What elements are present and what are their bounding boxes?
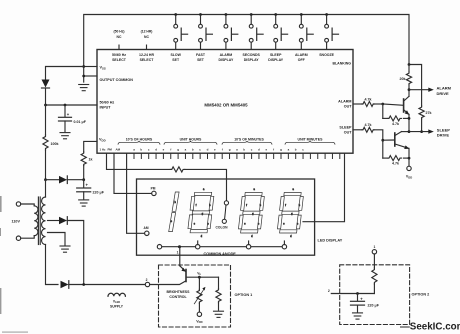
svg-text:AM: AM	[116, 148, 121, 152]
PINSTUBS	[134, 153, 340, 159]
wire 50/60Hz input	[46, 104, 98, 106]
option 2 dashed box	[340, 265, 410, 325]
svg-text:d: d	[155, 148, 157, 152]
svg-text:12-24 HR: 12-24 HR	[139, 53, 154, 57]
wire top supply rail	[84, 15, 409, 83]
resistor R11 4.7k sleep	[353, 127, 383, 140]
svg-text:INPUT: INPUT	[100, 106, 112, 110]
svg-text:f: f	[170, 148, 171, 152]
ground C1	[60, 133, 70, 139]
capacitor C1 0.01uF	[59, 105, 72, 132]
node AM terminal	[145, 231, 149, 235]
resistor R10 4.7k shunt	[383, 104, 409, 121]
svg-text:50/60 Hz: 50/60 Hz	[112, 53, 126, 57]
resistor R6	[372, 254, 377, 294]
svg-text:DISPLAY: DISPLAY	[268, 58, 284, 62]
svg-text:DRIVE: DRIVE	[437, 91, 450, 96]
svg-text:d: d	[207, 148, 209, 152]
node Vb	[198, 276, 201, 279]
option 1 dashed box	[159, 265, 231, 327]
brace 10s hours	[118, 141, 160, 145]
wire center tap to ground	[48, 233, 66, 246]
svg-text:UNIT MINUTES: UNIT MINUTES	[298, 137, 324, 141]
svg-text:PM: PM	[108, 148, 113, 152]
svg-text:VLED: VLED	[113, 300, 120, 305]
svg-text:OPTION 1: OPTION 1	[235, 293, 253, 297]
ground (VSS rail)	[79, 85, 89, 91]
wire Q2 base	[383, 139, 395, 141]
svg-text:1 Hz: 1 Hz	[100, 148, 106, 152]
wire 1Hz to colon with resistor R3	[107, 153, 227, 201]
node Q2 base	[381, 139, 384, 142]
svg-text:OUT: OUT	[344, 105, 353, 109]
svg-text:DRIVE: DRIVE	[437, 133, 450, 138]
svg-text:OUT: OUT	[344, 130, 353, 134]
capacitor C2 220uF	[77, 180, 91, 199]
svg-text:220 μF: 220 μF	[368, 304, 380, 308]
wire alarm drive arrow	[409, 88, 434, 92]
svg-text:OPTION 2: OPTION 2	[412, 292, 430, 296]
svg-text:4.7k: 4.7k	[392, 122, 399, 126]
wire 20k branch	[409, 65, 422, 107]
wire Q3 collector node	[186, 276, 218, 278]
node cap tap	[64, 104, 67, 107]
svg-text:NC: NC	[144, 35, 149, 39]
svg-text:SLEEP: SLEEP	[339, 125, 352, 129]
wire PM pin	[114, 153, 152, 193]
pin letters segments	[133, 148, 304, 152]
resistor R8 27k	[419, 106, 424, 132]
svg-text:2: 2	[146, 278, 148, 282]
scan smudge left edge	[0, 196, 2, 314]
svg-text:UNIT HOURS: UNIT HOURS	[180, 137, 202, 141]
display digit 10s-hours (1)	[169, 192, 179, 232]
svg-text:b: b	[192, 148, 194, 152]
svg-text:(50 Hz): (50 Hz)	[113, 30, 124, 34]
brace unit hours	[164, 141, 217, 145]
wire VSS to diode D1	[46, 67, 84, 80]
node PM terminal	[152, 191, 156, 195]
svg-text:COLON: COLON	[216, 226, 229, 230]
inductor VLED supply symbol	[108, 293, 125, 296]
svg-text:g: g	[229, 148, 231, 152]
svg-text:1: 1	[373, 245, 375, 249]
node Q1 base	[381, 103, 384, 106]
ground C3	[353, 313, 363, 319]
transformer T1 primary	[16, 202, 38, 241]
pins segment outputs bottom	[134, 153, 340, 159]
ground center tap	[60, 246, 70, 252]
svg-text:f: f	[273, 148, 274, 152]
wire Q1 base	[383, 104, 404, 105]
svg-text:PM: PM	[151, 187, 156, 191]
svg-text:b: b	[243, 148, 245, 152]
diode D3	[48, 217, 84, 285]
switch FAST SET	[199, 13, 213, 49]
node 1 junction	[178, 245, 181, 248]
svg-text:4.7k: 4.7k	[365, 123, 372, 127]
svg-text:FAST: FAST	[196, 53, 206, 57]
switch SLOW SET	[174, 13, 188, 49]
colon	[222, 201, 228, 224]
svg-text:SNOOZE: SNOOZE	[319, 53, 334, 57]
display segment letters	[171, 189, 301, 238]
svg-text:0.01 μF: 0.01 μF	[74, 120, 87, 124]
svg-text:—SeekIC.com: —SeekIC.com	[400, 321, 460, 332]
svg-text:ALARM: ALARM	[295, 53, 308, 57]
switch ALARM DISPLAY	[224, 13, 238, 49]
wire secondary bottom	[46, 245, 59, 285]
svg-text:b: b	[295, 148, 297, 152]
svg-text:100k: 100k	[51, 142, 59, 146]
node sleep drive	[408, 130, 411, 133]
svg-text:OUTPUT COMMON: OUTPUT COMMON	[100, 78, 134, 82]
node option2 junction	[356, 292, 359, 295]
resistor R1 100k	[43, 105, 48, 180]
svg-text:110V: 110V	[12, 219, 21, 223]
node VDD terminal option1	[197, 312, 201, 316]
svg-text:SET: SET	[172, 58, 180, 62]
wire secondary top	[45, 180, 47, 197]
transistor Q3 brightness	[180, 247, 186, 282]
switch SECONDS DISPLAY	[249, 13, 263, 49]
switch SLEEP DISPLAY	[274, 13, 288, 49]
transformer T1 secondary	[42, 197, 46, 245]
node common anode terminals	[157, 245, 286, 249]
svg-text:b: b	[140, 148, 142, 152]
brace unit minutes	[285, 141, 335, 145]
wire OUTPUT COMMON pin stub	[84, 75, 97, 77]
transformer T1 core	[38, 197, 40, 245]
svg-text:COMMON ANODE: COMMON ANODE	[204, 252, 237, 256]
SWITCHES	[119, 13, 339, 49]
node LED supply junction	[82, 283, 85, 286]
svg-text:1k: 1k	[89, 158, 93, 162]
switch SNOOZE	[325, 13, 339, 49]
svg-text:2: 2	[328, 289, 330, 293]
resistor R9 4.7k alarm	[353, 102, 383, 107]
svg-text:g: g	[280, 148, 282, 152]
wire common anode line	[160, 246, 285, 248]
potentiometer R4 brightness	[194, 277, 205, 312]
diode D4	[61, 281, 146, 289]
node VSS junction	[82, 65, 85, 68]
ground R5	[214, 311, 224, 317]
DIGITS	[169, 189, 304, 238]
svg-text:SLOW: SLOW	[170, 53, 181, 57]
svg-text:ALARM: ALARM	[338, 100, 351, 104]
capacitor C3 220uF	[351, 294, 365, 312]
node OUTPUT COMMON junction	[82, 75, 85, 78]
brace 10s minutes	[222, 141, 272, 145]
svg-text:SLEEP: SLEEP	[270, 53, 282, 57]
svg-text:NC: NC	[117, 35, 122, 39]
svg-text:AM: AM	[144, 226, 149, 230]
switch ALARM OFF	[299, 13, 313, 49]
resistor R5	[216, 277, 221, 310]
resistor R7 20k	[406, 65, 411, 90]
node alarm drive	[408, 88, 411, 91]
svg-text:SECONDS: SECONDS	[243, 53, 261, 57]
wire to VDD terminal	[408, 148, 410, 166]
svg-text:BRIGHTNESS: BRIGHTNESS	[167, 290, 191, 294]
wire option2 node 2	[331, 293, 374, 295]
wire terminal 2 to Q3 base	[150, 281, 186, 285]
svg-text:OFF: OFF	[298, 58, 306, 62]
node rail corner	[408, 63, 411, 66]
node rectifier output	[44, 178, 47, 181]
svg-text:BLANKING: BLANKING	[333, 62, 352, 66]
resistor R2 1k	[81, 152, 86, 180]
diode D1	[42, 80, 50, 106]
svg-text:DISPLAY: DISPLAY	[218, 58, 234, 62]
transistor Q2	[395, 132, 410, 149]
resistor R12 4.7k shunt2	[383, 140, 409, 160]
svg-text:50/60 Hz: 50/60 Hz	[100, 101, 115, 105]
display digit unit-minutes (8)	[277, 193, 304, 234]
svg-text:4.7k: 4.7k	[365, 97, 372, 101]
pin 12-24HR select NC stub	[146, 45, 148, 50]
node VDD terminal	[407, 166, 411, 170]
svg-text:27k: 27k	[426, 111, 432, 115]
svg-text:g: g	[177, 148, 179, 152]
svg-text:DISPLAY: DISPLAY	[244, 58, 260, 62]
wire AM pin	[127, 153, 145, 233]
display digit unit-hours (8)	[187, 192, 214, 233]
svg-text:MM5402 OR MM5405: MM5402 OR MM5405	[204, 103, 248, 108]
pin 50/60Hz select NC stub	[118, 45, 120, 50]
svg-text:10'S OF MINUTES: 10'S OF MINUTES	[234, 137, 264, 141]
diode D2	[46, 176, 84, 184]
svg-text:LED DISPLAY: LED DISPLAY	[318, 239, 343, 243]
LED display box	[137, 179, 315, 255]
node terminal 1 option2	[372, 250, 376, 254]
node input junction	[44, 104, 47, 107]
node Q1 emitter junction	[408, 117, 411, 120]
wire VSS pin stub	[84, 66, 97, 68]
svg-text:SUPPLY: SUPPLY	[110, 305, 124, 309]
svg-text:d: d	[258, 148, 260, 152]
wire VDD pin to R2	[84, 141, 97, 152]
IC U1 MM5402 outline	[97, 50, 353, 154]
svg-text:10'S OF HOURS: 10'S OF HOURS	[126, 137, 153, 141]
transistor Q1	[404, 90, 410, 132]
svg-text:SET: SET	[197, 58, 205, 62]
scan smudge bottom left	[2, 331, 28, 332]
svg-text:Vb: Vb	[197, 271, 201, 276]
svg-text:CONTROL: CONTROL	[169, 295, 187, 299]
svg-text:4.7k: 4.7k	[392, 162, 399, 166]
svg-text:20k: 20k	[400, 77, 406, 81]
svg-text:1: 1	[177, 251, 179, 255]
svg-text:(12 HR): (12 HR)	[141, 30, 153, 34]
svg-text:SELECT: SELECT	[112, 58, 127, 62]
node Q2 emitter junction	[408, 157, 411, 160]
ground C2	[79, 200, 89, 206]
node terminal 2	[145, 282, 149, 286]
display digit 10s-minutes (8)	[238, 193, 265, 234]
svg-text:220 μF: 220 μF	[93, 190, 105, 194]
wire digit common stubs	[198, 241, 285, 245]
svg-text:ALARM: ALARM	[220, 53, 233, 57]
svg-text:SELECT: SELECT	[140, 58, 155, 62]
svg-text:f: f	[222, 148, 223, 152]
wire last segment pin to display	[303, 153, 345, 221]
wire sleep drive arrow	[409, 129, 434, 133]
